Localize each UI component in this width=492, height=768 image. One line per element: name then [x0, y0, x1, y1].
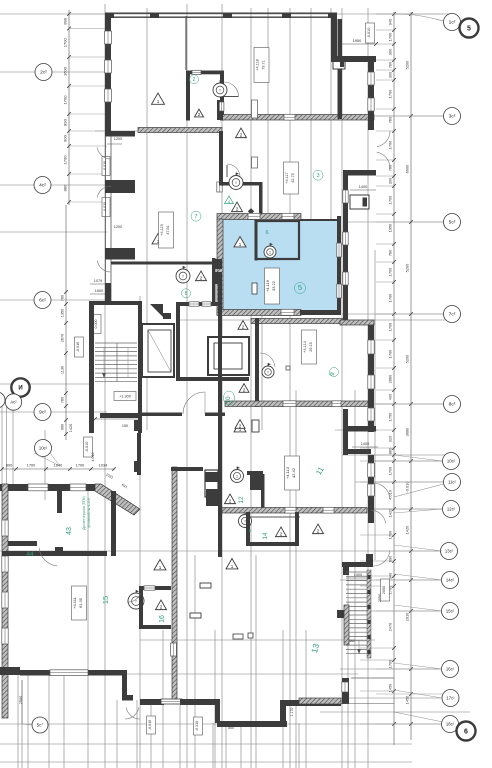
svg-text:4c²: 4c²: [39, 183, 46, 189]
svg-text:2: 2: [193, 77, 196, 83]
svg-text:150: 150: [122, 424, 128, 428]
svg-text:61.35: 61.35: [78, 597, 83, 608]
svg-text:13с²: 13с²: [445, 549, 454, 554]
svg-text:890: 890: [63, 17, 68, 24]
svg-text:f: f: [268, 371, 269, 375]
svg-text:5200: 5200: [405, 354, 410, 363]
svg-text:1700: 1700: [388, 659, 393, 668]
svg-text:1700: 1700: [388, 466, 393, 475]
svg-text:-0.010: -0.010: [76, 342, 80, 352]
svg-text:3c²: 3c²: [449, 114, 456, 120]
svg-text:33.22: 33.22: [271, 280, 276, 291]
svg-text:11с²: 11с²: [448, 480, 456, 485]
svg-text:17с²: 17с²: [446, 696, 455, 701]
svg-text:-0.010: -0.010: [405, 481, 410, 493]
svg-text:10: 10: [225, 396, 232, 404]
svg-text:300: 300: [388, 71, 393, 78]
svg-text:18с²: 18с²: [446, 722, 455, 727]
svg-text:900: 900: [63, 134, 68, 141]
svg-text:Ас²: Ас²: [10, 400, 17, 405]
svg-text:29.15: 29.15: [309, 342, 313, 352]
svg-text:1700: 1700: [63, 95, 68, 105]
svg-text:7: 7: [194, 214, 197, 220]
svg-text:1350: 1350: [61, 309, 65, 317]
svg-text:890: 890: [63, 118, 68, 125]
svg-text:5200: 5200: [405, 263, 410, 272]
svg-text:8c²: 8c²: [449, 402, 456, 408]
svg-text:1700: 1700: [388, 530, 393, 539]
svg-text:2: 2: [200, 276, 203, 281]
svg-text:43: 43: [66, 527, 73, 535]
svg-text:1079: 1079: [94, 279, 102, 283]
svg-text:3680: 3680: [405, 427, 410, 436]
svg-text:1450: 1450: [388, 683, 393, 692]
svg-text:2: 2: [317, 529, 320, 534]
svg-text:1750: 1750: [388, 412, 393, 421]
svg-text:6000: 6000: [405, 164, 410, 173]
svg-text:2670: 2670: [61, 334, 65, 342]
svg-text:760: 760: [388, 116, 393, 123]
svg-text:1700: 1700: [388, 32, 393, 41]
svg-text:1600: 1600: [63, 66, 68, 76]
svg-text:42.75: 42.75: [291, 173, 295, 183]
svg-text:2: 2: [160, 605, 163, 610]
svg-text:6c²: 6c²: [39, 298, 46, 304]
svg-text:1950: 1950: [353, 38, 362, 43]
svg-text:1420: 1420: [405, 525, 410, 534]
svg-text:1: 1: [269, 251, 271, 255]
svg-text:880: 880: [63, 184, 68, 191]
svg-text:f: f: [183, 275, 184, 279]
svg-text:12с²: 12с²: [447, 507, 456, 512]
svg-text:1450: 1450: [405, 695, 410, 704]
svg-text:6: 6: [464, 729, 468, 736]
svg-text:1700: 1700: [388, 140, 393, 149]
svg-text:14: 14: [262, 532, 269, 540]
svg-text:2: 2: [280, 532, 283, 537]
svg-text:2050: 2050: [382, 586, 386, 594]
svg-text:+4.117: +4.117: [285, 172, 289, 183]
svg-text:1: 1: [236, 475, 238, 479]
svg-text:5c°: 5c°: [37, 723, 44, 728]
svg-text:2500: 2500: [19, 696, 23, 704]
svg-text:1700: 1700: [63, 155, 68, 165]
svg-text:1200: 1200: [114, 137, 122, 141]
svg-text:2: 2: [242, 324, 245, 329]
svg-text:42.42: 42.42: [291, 467, 296, 478]
svg-text:-0.010: -0.010: [85, 442, 89, 453]
svg-text:16с²: 16с²: [446, 667, 455, 672]
svg-text:2: 2: [243, 387, 246, 392]
svg-text:f: f: [236, 181, 237, 185]
svg-text:условный № 4-119: условный № 4-119: [87, 498, 91, 527]
svg-text:14с²: 14с²: [446, 578, 455, 583]
svg-text:2: 2: [229, 499, 232, 504]
svg-text:15: 15: [101, 596, 110, 604]
svg-text:300: 300: [388, 48, 393, 55]
svg-text:f: f: [136, 600, 137, 604]
svg-text:9с²: 9с²: [39, 410, 46, 416]
svg-text:1400: 1400: [359, 185, 367, 189]
svg-text:1500: 1500: [95, 289, 103, 293]
svg-text:-0.010: -0.010: [148, 720, 152, 730]
svg-text:4.010: 4.010: [91, 453, 95, 462]
svg-text:760: 760: [388, 249, 393, 256]
svg-text:+4.111: +4.111: [72, 596, 77, 609]
svg-text:12: 12: [238, 496, 245, 504]
svg-text:+4.113: +4.113: [285, 466, 290, 479]
svg-text:И: И: [18, 386, 22, 392]
svg-text:1: 1: [159, 565, 162, 570]
svg-text:1 170: 1 170: [290, 708, 294, 717]
svg-text:-0.010: -0.010: [103, 161, 107, 171]
svg-text:1034: 1034: [99, 463, 108, 468]
svg-text:2: 2: [236, 207, 239, 212]
svg-text:1: 1: [231, 564, 234, 569]
svg-text:5200: 5200: [405, 60, 410, 69]
svg-text:+4.116: +4.116: [265, 279, 270, 292]
svg-text:1700: 1700: [388, 195, 393, 204]
svg-text:1130: 1130: [61, 366, 65, 374]
svg-text:2660: 2660: [388, 374, 393, 383]
svg-text:2910: 2910: [405, 612, 410, 621]
svg-text:1420: 1420: [388, 508, 393, 517]
svg-text:47.51: 47.51: [166, 225, 170, 235]
svg-text:760: 760: [61, 397, 65, 403]
svg-text:1700: 1700: [76, 463, 85, 468]
svg-text:320: 320: [388, 435, 393, 442]
svg-text:940: 940: [388, 18, 393, 25]
svg-text:1400: 1400: [361, 442, 369, 446]
svg-text:f: f: [245, 520, 246, 524]
svg-text:Диспетчерская (ПГМ): Диспетчерская (ПГМ): [82, 496, 86, 530]
svg-text:+1.300: +1.300: [119, 395, 131, 399]
svg-text:-0.310: -0.310: [195, 721, 199, 731]
svg-text:f: f: [220, 89, 221, 93]
svg-text:1700: 1700: [388, 267, 393, 276]
svg-text:44: 44: [26, 551, 34, 558]
svg-text:1700: 1700: [388, 89, 393, 98]
svg-text:1c²: 1c²: [449, 20, 456, 26]
svg-text:890: 890: [6, 463, 13, 468]
svg-text:+4.114: +4.114: [303, 341, 307, 352]
svg-text:6: 6: [265, 230, 268, 236]
svg-text:+4.118: +4.118: [256, 59, 260, 70]
svg-text:1200: 1200: [114, 225, 122, 229]
svg-text:1700: 1700: [27, 463, 36, 468]
svg-text:2470: 2470: [388, 622, 393, 631]
svg-text:1: 1: [239, 242, 242, 247]
svg-text:10с²: 10с²: [39, 446, 48, 451]
svg-text:1700: 1700: [388, 293, 393, 302]
svg-text:400: 400: [388, 393, 393, 400]
svg-text:1420: 1420: [69, 424, 73, 432]
svg-text:5: 5: [467, 26, 471, 33]
svg-text:760: 760: [388, 61, 393, 68]
svg-text:79.71: 79.71: [262, 60, 266, 70]
svg-text:10с²: 10с²: [447, 459, 456, 464]
svg-text:2: 2: [239, 423, 242, 428]
svg-text:-0.010: -0.010: [367, 28, 371, 39]
svg-text:1700: 1700: [63, 38, 68, 48]
svg-text:2c²: 2c²: [40, 70, 47, 76]
svg-text:5c²: 5c²: [449, 220, 456, 226]
svg-text:340: 340: [388, 572, 393, 579]
svg-text:0.000: 0.000: [94, 320, 98, 329]
svg-text:760: 760: [61, 295, 65, 301]
svg-text:15с²: 15с²: [446, 609, 455, 614]
svg-text:1950: 1950: [388, 223, 393, 232]
svg-text:5: 5: [298, 283, 302, 292]
svg-text:2: 2: [240, 133, 243, 138]
svg-text:1700: 1700: [388, 349, 393, 358]
svg-text:300: 300: [388, 177, 393, 184]
svg-text:7c²: 7c²: [449, 312, 456, 318]
svg-text:+4.115: +4.115: [160, 224, 164, 235]
svg-text:1700: 1700: [388, 322, 393, 331]
svg-text:960: 960: [61, 424, 65, 430]
svg-text:16: 16: [159, 615, 166, 623]
svg-text:860: 860: [388, 447, 393, 454]
svg-text:8: 8: [185, 291, 188, 297]
svg-text:1: 1: [157, 99, 160, 104]
svg-text:3: 3: [316, 173, 319, 179]
svg-text:-0.010: -0.010: [103, 202, 107, 212]
svg-text:2: 2: [198, 112, 201, 117]
